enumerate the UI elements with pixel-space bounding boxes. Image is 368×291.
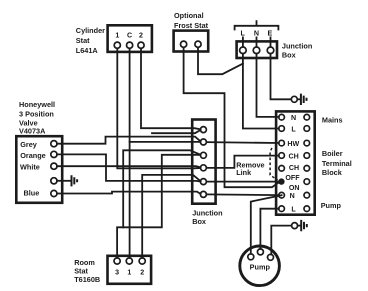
frost stat box — [174, 31, 209, 52]
valve ground symbol — [72, 175, 78, 186]
svg-text:2: 2 — [139, 32, 143, 40]
wire cyl stat 1 to junction circle 4 — [117, 48, 200, 168]
top junction box label — [282, 41, 312, 59]
svg-text:Stat: Stat — [76, 36, 90, 45]
wire grey to junction circle 2 — [57, 137, 200, 144]
wire top junction L to terminal L — [243, 54, 279, 129]
svg-text:L641A: L641A — [76, 46, 99, 55]
svg-text:3 Position: 3 Position — [19, 109, 54, 118]
svg-text:1: 1 — [115, 32, 119, 40]
cylinder stat L641A box — [108, 25, 152, 52]
remove link dashed — [270, 148, 278, 180]
wire pump earth — [271, 226, 291, 255]
svg-text:3: 3 — [115, 269, 119, 277]
svg-text:CH: CH — [288, 153, 298, 161]
svg-text:Cylinder: Cylinder — [76, 26, 105, 35]
svg-text:Box: Box — [192, 217, 206, 226]
wire room stat pair to junction circle 3 — [123, 150, 200, 227]
svg-text:N: N — [291, 114, 296, 122]
ground symbol pump — [292, 220, 307, 231]
wire cyl stat 2 to junction circle 1 — [141, 48, 201, 129]
svg-text:Frost Stat: Frost Stat — [174, 21, 209, 30]
wire cyl C branch to junction circle 2 — [130, 141, 201, 143]
svg-text:Optional: Optional — [174, 11, 204, 20]
honeywell valve label — [19, 100, 55, 135]
svg-text:Boiler: Boiler — [322, 149, 343, 158]
svg-text:N: N — [254, 30, 259, 38]
honeywell 3 position valve V4073A box — [16, 136, 62, 203]
svg-text:Pump: Pump — [250, 262, 271, 271]
pump — [240, 246, 280, 286]
top junction box — [237, 30, 277, 58]
middle junction box — [192, 120, 215, 204]
valve earth wire — [57, 180, 71, 182]
wire blue to junction circle 6 — [57, 192, 201, 194]
svg-text:L: L — [291, 206, 296, 214]
room stat label — [74, 258, 100, 284]
stems into top junction box — [243, 37, 271, 46]
wire white to junction circle 4 — [57, 166, 201, 167]
svg-text:OFF: OFF — [285, 174, 300, 182]
svg-text:Junction: Junction — [282, 41, 312, 50]
svg-text:ON: ON — [289, 184, 300, 192]
svg-text:2: 2 — [140, 269, 144, 277]
svg-text:L: L — [291, 126, 296, 134]
svg-text:Blue: Blue — [24, 189, 40, 198]
room stat T6160B box — [108, 256, 152, 284]
svg-text:C: C — [127, 32, 132, 40]
middle junction box label — [192, 209, 222, 227]
svg-text:White: White — [20, 163, 40, 172]
svg-text:Honeywell: Honeywell — [19, 100, 55, 109]
svg-text:Box: Box — [282, 50, 296, 59]
svg-text:N: N — [290, 192, 295, 200]
svg-text:Grey: Grey — [20, 140, 38, 149]
wire L terminal to pump — [260, 209, 278, 249]
wire junction circle 4 to CH via step — [206, 156, 278, 168]
wire top junction E to ground — [271, 54, 292, 100]
svg-text:Link: Link — [236, 168, 252, 177]
svg-text:CH: CH — [289, 164, 299, 172]
svg-text:V4073A: V4073A — [19, 126, 46, 135]
cable clamp bracket — [235, 21, 279, 29]
wire frost stat right to L feed — [198, 47, 243, 74]
wire junction circle 2 to HW — [206, 141, 278, 144]
wire cyl stat C / room stat 1 vertical — [129, 48, 131, 257]
svg-text:E: E — [268, 30, 273, 38]
cylinder stat label — [76, 26, 105, 55]
wire room stat 2 to junction circle 5 — [142, 175, 200, 258]
svg-text:1: 1 — [127, 269, 131, 277]
wire junction circle 6 to N — [206, 193, 278, 196]
wire top junction N to terminal N — [257, 54, 279, 117]
boiler terminal block — [276, 111, 315, 214]
remove link label — [236, 160, 264, 177]
wire room stat 3 riser to junction circle 3 — [117, 155, 200, 258]
wire orange to junction circle 5 — [57, 154, 201, 181]
wire frost stat left to ON terminal — [184, 47, 279, 187]
svg-text:T6160B: T6160B — [74, 275, 100, 284]
optional frost stat label — [174, 11, 209, 30]
svg-text:L: L — [241, 30, 246, 38]
wire companion into junction circle 1 — [152, 130, 201, 133]
svg-text:Block: Block — [322, 168, 343, 177]
svg-text:Terminal: Terminal — [322, 159, 352, 168]
svg-text:Pump: Pump — [321, 201, 342, 210]
wire N terminal to pump — [251, 195, 282, 254]
ground symbol top right — [291, 94, 306, 105]
svg-text:HW: HW — [287, 140, 299, 148]
svg-text:Mains: Mains — [322, 115, 343, 124]
wire junction circle 5 to ON — [206, 181, 278, 183]
boiler terminal block label — [322, 149, 352, 177]
svg-text:Orange: Orange — [20, 151, 46, 160]
